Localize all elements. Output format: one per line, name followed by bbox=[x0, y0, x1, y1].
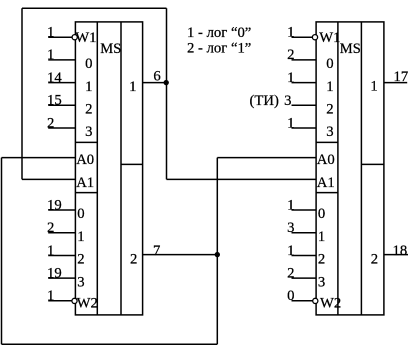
U1 pin W1 stub bbox=[48, 36, 75, 38]
multiplexer U1 body bbox=[75, 22, 142, 315]
wire node 6 top horizontal bbox=[22, 7, 167, 9]
svg-text:(ТИ): (ТИ) bbox=[250, 93, 279, 109]
U1 output field separator bbox=[121, 163, 143, 165]
svg-text:A1: A1 bbox=[317, 175, 335, 191]
svg-text:1: 1 bbox=[47, 288, 54, 304]
svg-text:1: 1 bbox=[85, 79, 92, 95]
wire U1 A1 input bbox=[22, 178, 75, 180]
svg-text:1: 1 bbox=[287, 70, 294, 86]
svg-text:2: 2 bbox=[85, 102, 92, 118]
svg-text:1: 1 bbox=[47, 25, 54, 41]
wire node 6 middle vertical bbox=[166, 8, 168, 179]
U2 pin field separator lower bbox=[316, 192, 338, 194]
svg-text:W1: W1 bbox=[319, 30, 340, 46]
svg-text:A0: A0 bbox=[317, 152, 335, 168]
svg-text:W2: W2 bbox=[77, 296, 98, 312]
svg-text:MS: MS bbox=[340, 41, 361, 57]
U2 pin D7 stub bbox=[292, 277, 317, 279]
svg-text:2: 2 bbox=[47, 220, 54, 236]
wire U2 output 2 stub pin 18 bbox=[384, 254, 408, 256]
svg-text:17: 17 bbox=[394, 69, 409, 85]
multiplexer U2 body bbox=[316, 22, 384, 315]
svg-text:A1: A1 bbox=[76, 175, 94, 191]
svg-text:1: 1 bbox=[77, 229, 84, 245]
wire node 6 to U2 A1 input bbox=[167, 178, 317, 180]
svg-text:1: 1 bbox=[287, 115, 294, 131]
svg-text:19: 19 bbox=[47, 265, 62, 281]
U1 W2 inversion bubble bbox=[72, 298, 77, 303]
svg-text:2: 2 bbox=[287, 265, 294, 281]
U2 divider between pin field and main field bbox=[337, 22, 339, 315]
svg-text:3: 3 bbox=[77, 274, 84, 290]
U2 pin W2 stub bbox=[292, 300, 317, 302]
svg-text:2: 2 bbox=[318, 252, 325, 268]
junction dot node 6 bbox=[164, 80, 169, 85]
U1 pin W2 stub bbox=[48, 300, 75, 302]
wire node 6 left vertical bbox=[21, 8, 23, 179]
U2 pin D2 stub bbox=[292, 104, 317, 106]
svg-text:W2: W2 bbox=[320, 296, 341, 312]
U2 pin D0 stub bbox=[292, 59, 317, 61]
U1 pin D5 stub bbox=[48, 232, 75, 234]
svg-text:19: 19 bbox=[47, 197, 62, 213]
U1 pin D6 stub bbox=[48, 255, 75, 257]
U2 W1 inversion bubble bbox=[312, 35, 317, 40]
svg-text:3: 3 bbox=[287, 220, 294, 236]
svg-text:1: 1 bbox=[318, 229, 325, 245]
wire U2 output 1 stub pin 17 bbox=[384, 82, 407, 84]
svg-text:1: 1 bbox=[47, 47, 54, 63]
svg-text:0: 0 bbox=[85, 56, 92, 72]
svg-text:W1: W1 bbox=[75, 30, 96, 46]
junction dot node 7 bbox=[215, 252, 220, 257]
svg-text:2: 2 bbox=[326, 102, 333, 118]
U1 pin field separator lower bbox=[75, 192, 97, 194]
svg-text:2: 2 bbox=[77, 252, 84, 268]
wire U1 A0 input bbox=[2, 157, 76, 159]
svg-text:1: 1 bbox=[287, 25, 294, 41]
U2 output field separator bbox=[361, 163, 384, 165]
U1 divider between main field and output field bbox=[120, 22, 122, 315]
svg-text:0: 0 bbox=[326, 56, 333, 72]
svg-text:6: 6 bbox=[153, 69, 160, 85]
wire node 7 bottom horizontal bbox=[2, 343, 218, 345]
svg-text:MS: MS bbox=[100, 41, 121, 57]
svg-text:2: 2 bbox=[287, 47, 294, 63]
U1 pin D0 stub bbox=[48, 59, 75, 61]
wire U1 output 2 to node 7 junction bbox=[143, 254, 218, 256]
svg-text:1 - лог “0”: 1 - лог “0” bbox=[187, 25, 251, 41]
U1 pin D1 stub bbox=[48, 82, 75, 84]
wire node 7 left vertical bbox=[1, 158, 3, 345]
wire U1 output 1 to node 6 junction bbox=[143, 82, 167, 84]
U1 pin D4 stub bbox=[48, 209, 75, 211]
svg-text:0: 0 bbox=[318, 206, 325, 222]
svg-text:3: 3 bbox=[326, 124, 333, 140]
svg-text:3: 3 bbox=[284, 93, 291, 109]
svg-text:0: 0 bbox=[77, 206, 84, 222]
svg-text:A0: A0 bbox=[76, 152, 94, 168]
wire node 7 right vertical bbox=[216, 158, 218, 345]
svg-text:1: 1 bbox=[287, 243, 294, 259]
svg-text:2: 2 bbox=[47, 115, 54, 131]
svg-text:2: 2 bbox=[371, 252, 378, 268]
U1 W1 inversion bubble bbox=[72, 35, 77, 40]
svg-text:1: 1 bbox=[326, 79, 333, 95]
U1 pin D7 stub bbox=[48, 277, 75, 279]
U2 pin D4 stub bbox=[292, 209, 317, 211]
U2 pin field separator upper bbox=[316, 141, 338, 143]
svg-text:1: 1 bbox=[129, 79, 136, 95]
U2 divider between main field and output field bbox=[360, 22, 362, 315]
U2 pin D6 stub bbox=[292, 255, 317, 257]
U2 pin D3 stub bbox=[292, 127, 317, 129]
svg-text:2: 2 bbox=[130, 252, 137, 268]
U2 pin W1 stub bbox=[292, 36, 317, 38]
U1 divider between pin field and main field bbox=[96, 22, 98, 315]
U1 pin D2 stub bbox=[48, 104, 75, 106]
U2 pin D1 stub bbox=[292, 82, 317, 84]
svg-text:1: 1 bbox=[47, 243, 54, 259]
svg-text:0: 0 bbox=[287, 288, 294, 304]
svg-text:1: 1 bbox=[287, 197, 294, 213]
svg-text:3: 3 bbox=[85, 124, 92, 140]
U2 W2 inversion bubble bbox=[313, 298, 318, 303]
wire node 7 to U2 A0 input bbox=[217, 157, 316, 159]
svg-text:18: 18 bbox=[393, 243, 408, 259]
svg-text:15: 15 bbox=[47, 93, 62, 109]
U1 pin field separator upper bbox=[75, 141, 97, 143]
svg-text:14: 14 bbox=[47, 70, 62, 86]
svg-text:2 - лог “1”: 2 - лог “1” bbox=[187, 41, 251, 57]
svg-text:1: 1 bbox=[370, 78, 377, 94]
svg-text:7: 7 bbox=[153, 243, 160, 259]
svg-text:3: 3 bbox=[318, 274, 325, 290]
U2 pin D5 stub bbox=[292, 232, 317, 234]
U1 pin D3 stub bbox=[48, 127, 75, 129]
